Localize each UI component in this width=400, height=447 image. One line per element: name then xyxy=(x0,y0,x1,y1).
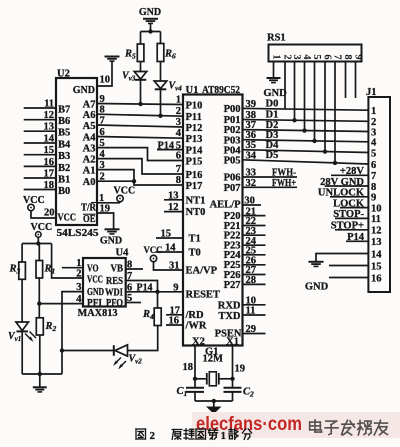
svg-text:P14: P14 xyxy=(347,232,365,243)
wire RS1 pin 2 to D0 net xyxy=(284,62,286,110)
svg-text:3: 3 xyxy=(100,160,105,171)
svg-text:B4: B4 xyxy=(58,140,71,151)
svg-text:6: 6 xyxy=(371,160,376,171)
svg-text:P14: P14 xyxy=(137,282,154,293)
svg-text:7: 7 xyxy=(371,171,376,182)
wire U2 pin 12 (B6) stub xyxy=(24,110,56,121)
svg-text:GND: GND xyxy=(263,88,287,99)
svg-text:LOCK: LOCK xyxy=(333,198,365,209)
svg-text:34: 34 xyxy=(246,150,257,161)
svg-text:2: 2 xyxy=(150,430,156,442)
svg-text:4: 4 xyxy=(371,138,377,149)
svg-text:6: 6 xyxy=(322,54,333,59)
svg-text:2: 2 xyxy=(76,269,81,280)
svg-text:1: 1 xyxy=(221,430,227,442)
wire U1 pin 38 (D1) to J1 pin 2 xyxy=(243,110,369,122)
svg-text:P15: P15 xyxy=(186,157,203,168)
RS1 pin numbers 1-9 xyxy=(271,54,364,60)
svg-text:VCC: VCC xyxy=(31,222,53,233)
svg-text:1: 1 xyxy=(176,94,181,105)
net label P14 to J1 pin 13 xyxy=(346,232,368,243)
svg-text:5: 5 xyxy=(371,148,376,159)
svg-text:VCC: VCC xyxy=(144,245,163,256)
wire R1 to R2 node xyxy=(37,278,41,318)
svg-text:8: 8 xyxy=(127,260,132,271)
wire U1 pin 21 (P20) stub xyxy=(243,206,266,217)
wire R6 to Vy4 xyxy=(160,62,162,82)
svg-text:VCC: VCC xyxy=(87,274,103,285)
J1 pin numbers 1-16 xyxy=(371,106,382,284)
ground symbol below crystal xyxy=(206,401,222,414)
wire crystal ground bar xyxy=(195,399,233,403)
svg-text:U1: U1 xyxy=(186,85,199,96)
svg-text:5: 5 xyxy=(311,54,322,59)
svg-text:GND: GND xyxy=(87,287,104,298)
ground symbol below U2 pin 19 xyxy=(100,229,122,246)
wire U1 pin 27 (P26) stub xyxy=(243,265,266,276)
wire U4 pin 8 (VB) stub xyxy=(126,260,143,271)
svg-text:14: 14 xyxy=(44,134,55,145)
svg-text:+28V: +28V xyxy=(340,166,364,177)
svg-text:NT1: NT1 xyxy=(186,195,206,206)
svg-text:12: 12 xyxy=(168,202,179,213)
svg-text:STOP+: STOP+ xyxy=(331,221,364,232)
wire A5 to U1 P12 xyxy=(97,116,183,128)
wire RS1 pin 7 to D5 net xyxy=(333,62,337,166)
svg-text:D5: D5 xyxy=(266,150,279,161)
svg-text:16: 16 xyxy=(371,273,382,284)
svg-text:28: 28 xyxy=(246,275,257,286)
svg-text:13: 13 xyxy=(44,122,55,133)
svg-text:10: 10 xyxy=(371,203,382,214)
wire Vy1 to ground bar xyxy=(21,332,23,374)
diode Vy4 xyxy=(154,81,182,93)
svg-text:5: 5 xyxy=(127,293,132,304)
svg-text:19: 19 xyxy=(100,204,111,215)
svg-text:15: 15 xyxy=(44,145,55,156)
resistor network RS1 body xyxy=(267,33,362,62)
svg-text:4: 4 xyxy=(76,294,82,305)
svg-text:VCC: VCC xyxy=(58,213,77,224)
wire U1 pin 25 (P24) stub xyxy=(243,246,266,257)
wire U1 pin 33 (FWH-) xyxy=(243,168,298,179)
wire U1 pin 23 (P22) stub xyxy=(243,226,266,237)
ground symbol at J1 pin 14 xyxy=(305,262,329,293)
svg-text:7: 7 xyxy=(176,164,181,175)
svg-text:B7: B7 xyxy=(58,105,70,116)
crystal G1 12M xyxy=(195,347,233,386)
resistor R6 xyxy=(157,44,176,62)
svg-text:T1: T1 xyxy=(189,234,201,245)
svg-text:9: 9 xyxy=(100,94,105,105)
svg-text:VB: VB xyxy=(111,263,124,274)
wire U1 pin 22 (P21) stub xyxy=(243,216,266,227)
svg-text:8: 8 xyxy=(176,175,181,186)
IC U2 54LS245 body xyxy=(56,69,99,240)
svg-text:6: 6 xyxy=(127,282,132,293)
svg-text:8: 8 xyxy=(100,105,105,116)
wire U1 pin 28 (P27) stub xyxy=(243,275,266,286)
svg-text:2: 2 xyxy=(100,172,105,183)
wire U2 pin 16 (B2) stub xyxy=(24,157,56,168)
svg-text:UNLOCK: UNLOCK xyxy=(318,188,365,199)
VCC terminal at U2 pin 20 xyxy=(23,195,45,211)
wire RESET node to R4 xyxy=(157,292,159,308)
IC U4 MAX813 body xyxy=(78,248,130,320)
wire A4 to U1 P13 xyxy=(97,127,183,139)
IC U1 AT89C52 body xyxy=(183,85,243,346)
svg-text:16: 16 xyxy=(169,316,180,327)
wire U1 pin 36 (D3) to J1 pin 4 xyxy=(243,130,369,142)
wire bottom ground bar xyxy=(22,373,62,375)
VCC terminal at U1 EA/VP xyxy=(144,245,163,262)
svg-text:VCC: VCC xyxy=(114,186,136,197)
svg-text:P14: P14 xyxy=(186,146,204,157)
wire U1 pin 17 (/RD) xyxy=(166,305,184,316)
wire U2 pin 14 (B4) stub xyxy=(24,134,56,145)
svg-text:7: 7 xyxy=(100,116,105,127)
wire U2 pin 13 (B5) stub xyxy=(24,122,56,133)
svg-text:P07: P07 xyxy=(224,183,241,194)
wire RS1 pin 6 to D4 net xyxy=(323,62,327,154)
svg-text:8: 8 xyxy=(342,54,353,59)
svg-text:J1: J1 xyxy=(366,87,377,98)
watermark background band xyxy=(192,412,400,438)
wire U1 pin 26 (P25) stub xyxy=(243,256,266,267)
wire Vy4 to P11 net xyxy=(158,90,162,118)
ground symbol RS1 xyxy=(263,78,287,99)
wire R4 to Vy2 xyxy=(128,326,158,351)
svg-text:B0: B0 xyxy=(58,186,70,197)
wire U1 pin 18 (X2) xyxy=(183,346,198,381)
wire U1 pin 14 (T0) xyxy=(156,243,183,254)
svg-text:OE: OE xyxy=(83,214,96,225)
wire U1 pin 16 (/WR) xyxy=(166,316,184,327)
svg-text:D0: D0 xyxy=(266,99,279,110)
svg-text:A6: A6 xyxy=(83,110,96,121)
resistor R3 xyxy=(9,262,26,279)
ground symbol at U2 pin 10 xyxy=(105,57,120,62)
wire RS1 pin 9 stub xyxy=(355,62,357,99)
wire U4 pin 1 (VO) stub xyxy=(62,258,83,269)
wire RS1 pin 4 to D2 net xyxy=(302,62,306,133)
wire U1 pin 10 (RXD) stub xyxy=(243,295,266,306)
resistor R2 xyxy=(36,318,56,335)
wire U1 pin 39 (D0) to J1 pin 1 xyxy=(243,99,369,111)
wire U1 pin 19 (X1) xyxy=(230,346,245,381)
LED Vy1 xyxy=(8,322,36,343)
wire U2 pin 1 xyxy=(97,193,120,204)
VCC terminal left rail xyxy=(31,222,53,237)
svg-text:U2: U2 xyxy=(57,69,70,80)
ground GND top center xyxy=(139,7,161,32)
ground symbol bottom left xyxy=(33,374,47,392)
svg-text:32: 32 xyxy=(246,178,257,189)
svg-text:STOP-: STOP- xyxy=(333,209,364,220)
svg-text:17: 17 xyxy=(44,169,55,180)
wire U1 pin 29 (PSEN) stub xyxy=(243,324,266,335)
svg-text:19: 19 xyxy=(235,364,246,375)
svg-text:A1: A1 xyxy=(83,165,96,176)
wire A6 to U1 P11 xyxy=(97,105,183,117)
svg-text:7: 7 xyxy=(332,54,343,59)
wire U1 pin 37 (D2) to J1 pin 3 xyxy=(243,120,369,132)
wire R2 to ground bar xyxy=(38,335,42,376)
svg-text:NT0: NT0 xyxy=(186,207,206,218)
svg-text:4: 4 xyxy=(100,149,106,160)
svg-text:12M: 12M xyxy=(203,354,224,365)
VCC terminal at U2 pin 1 xyxy=(114,186,136,202)
svg-text:7: 7 xyxy=(127,271,132,282)
svg-text:elecfans·com: elecfans·com xyxy=(196,414,302,435)
resistor R5 xyxy=(124,44,144,62)
svg-text:A2: A2 xyxy=(83,154,96,165)
svg-text:4: 4 xyxy=(301,54,312,60)
svg-text:RS1: RS1 xyxy=(267,33,286,44)
U1 port labels left column xyxy=(185,101,220,348)
svg-text:B1: B1 xyxy=(58,175,70,186)
wire U1 pin 11 (TXD) stub xyxy=(243,306,266,317)
connector J1 body xyxy=(366,87,390,292)
svg-text:9: 9 xyxy=(371,193,376,204)
svg-text:U4: U4 xyxy=(116,248,130,259)
wire RS1 pin 1 to ground xyxy=(273,62,275,78)
svg-text:3: 3 xyxy=(76,282,81,293)
caption figure 2 title xyxy=(136,429,252,443)
wire U4 pin 6 (WDI) / net P14 / U1 RESET pin 9 xyxy=(126,282,183,294)
wire U1 pin 34 (D5) to J1 pin 6 xyxy=(243,150,369,164)
wire U4 pin 7 (RES) xyxy=(126,271,158,292)
svg-text:P16: P16 xyxy=(186,170,203,181)
svg-text:GND: GND xyxy=(100,236,122,247)
wire J1 pin 14 to ground xyxy=(316,254,368,262)
svg-text:10: 10 xyxy=(100,75,111,86)
svg-text:RXD: RXD xyxy=(218,300,241,311)
svg-text:B6: B6 xyxy=(58,116,70,127)
wire U4 pin 5 (PFO) stub xyxy=(126,293,141,304)
wire R5 to Vy3 xyxy=(140,62,142,72)
svg-text:/WR: /WR xyxy=(185,320,207,331)
svg-text:P17: P17 xyxy=(186,181,203,192)
watermark hanzi dianzifashaoyou xyxy=(310,420,388,435)
svg-text:P05: P05 xyxy=(224,155,241,166)
svg-text:T/R: T/R xyxy=(81,203,97,214)
capacitor C2 xyxy=(224,379,255,401)
net label STOP- to J1 pin 11 xyxy=(333,209,368,220)
svg-text:12: 12 xyxy=(44,110,55,121)
svg-text:B3: B3 xyxy=(58,151,70,162)
svg-text:P11: P11 xyxy=(186,112,202,123)
wire U2 pin 17 (B1) stub xyxy=(24,169,56,180)
wire U4 pin 4 (PFI) to R1-R2 node xyxy=(39,294,83,305)
svg-text:A5: A5 xyxy=(83,121,96,132)
svg-text:11: 11 xyxy=(246,306,256,317)
svg-text:6: 6 xyxy=(100,127,105,138)
svg-text:20: 20 xyxy=(44,208,55,219)
net label 28V GND to J1 pin 8 xyxy=(320,177,368,188)
net label UNLOCK to J1 pin 9 xyxy=(318,188,368,199)
wire U2 pin 10 xyxy=(97,61,112,86)
svg-text:12: 12 xyxy=(371,226,382,237)
net label P14 stub to U1 pin 5 xyxy=(157,140,183,151)
svg-text:2: 2 xyxy=(176,106,181,117)
svg-text:1: 1 xyxy=(271,54,282,59)
svg-text:GND: GND xyxy=(305,282,329,293)
svg-text:6: 6 xyxy=(176,150,181,161)
wire RS1 pin 3 to D1 net xyxy=(292,62,296,123)
svg-text:3: 3 xyxy=(291,54,302,59)
wire U2 pin 18 (B0) stub xyxy=(24,180,56,191)
svg-text:P13: P13 xyxy=(186,134,203,145)
wire U1 pin 35 (D4) to J1 pin 5 xyxy=(243,140,369,153)
svg-text:B5: B5 xyxy=(58,128,70,139)
wire U2 pin 11 (B7) stub xyxy=(24,99,56,110)
svg-text:A7: A7 xyxy=(83,99,96,110)
wire GND rail to Vy2 xyxy=(60,348,114,352)
svg-text:16: 16 xyxy=(44,157,55,168)
diode Vy3 xyxy=(122,71,147,83)
svg-text:T0: T0 xyxy=(189,248,201,259)
svg-text:AEL/P: AEL/P xyxy=(210,199,242,210)
wire U1 pin 30 (AEL/P) stub xyxy=(243,196,262,207)
svg-text:1: 1 xyxy=(371,106,376,117)
net label LOCK to J1 pin 10 xyxy=(333,198,368,209)
wire U1 pin 13 (NT1) xyxy=(164,190,183,201)
svg-text:54LS245: 54LS245 xyxy=(57,227,99,239)
wire U2 pin 15 (B3) stub xyxy=(24,145,56,156)
capacitor C1 xyxy=(177,379,205,401)
svg-text:11: 11 xyxy=(371,214,381,225)
svg-text:29: 29 xyxy=(246,324,257,335)
svg-text:VO: VO xyxy=(87,263,99,274)
svg-text:B2: B2 xyxy=(58,163,70,174)
svg-text:VCC: VCC xyxy=(23,195,45,206)
wire A7 to U1 P10 xyxy=(97,94,183,105)
U1 port labels right column xyxy=(210,104,242,347)
wire J1 pin 15 stub xyxy=(329,265,368,267)
svg-text:P00: P00 xyxy=(224,104,241,115)
wire U1 pin 24 (P23) stub xyxy=(243,236,266,247)
wire A0 junction xyxy=(97,172,136,184)
svg-text:TXD: TXD xyxy=(218,311,241,322)
svg-text:P14: P14 xyxy=(158,140,175,151)
wire Vy3 to P10 net xyxy=(138,80,142,106)
svg-text:13: 13 xyxy=(371,237,382,248)
U2 port labels B7-B0 xyxy=(58,105,71,198)
svg-text:X2: X2 xyxy=(192,336,205,347)
svg-text:18: 18 xyxy=(44,180,55,191)
wire U1 pin 15 (T1) xyxy=(156,229,183,240)
wire U1 pin 31 (EA/VP) xyxy=(154,261,184,272)
svg-text:EA/VP: EA/VP xyxy=(186,265,218,276)
svg-text:8: 8 xyxy=(371,182,376,193)
svg-text:9: 9 xyxy=(353,54,364,59)
wire A2 to U1 P16 xyxy=(97,149,183,175)
svg-text:13: 13 xyxy=(168,190,179,201)
svg-text:18: 18 xyxy=(183,362,194,373)
svg-text:9: 9 xyxy=(173,282,178,293)
svg-text:P27: P27 xyxy=(224,280,241,291)
svg-text:15: 15 xyxy=(161,229,172,240)
wire U4 pin 3 (GND) down xyxy=(62,282,83,374)
resistor R1 xyxy=(36,261,55,279)
svg-text:A4: A4 xyxy=(83,132,97,143)
svg-text:2: 2 xyxy=(282,54,293,59)
wire A1 to U1 P17 xyxy=(97,160,183,186)
U2 port labels A7-A0 xyxy=(83,99,97,188)
net label STOP+ to J1 pin 12 xyxy=(331,221,369,232)
wire RS1 pin 8 stub xyxy=(345,62,347,99)
wire U1 pin 12 (NT0) xyxy=(164,202,183,213)
wire J1 pin 16 stub xyxy=(329,277,368,279)
wire R3 to Vy1 xyxy=(21,279,23,322)
wire U2 pin 19 (OE) xyxy=(97,204,114,229)
svg-text:1: 1 xyxy=(99,193,104,204)
svg-text:5: 5 xyxy=(100,138,105,149)
svg-text:/RD: /RD xyxy=(185,310,205,321)
wire top rail to R5 R6 xyxy=(141,29,161,44)
svg-text:14: 14 xyxy=(165,243,176,254)
svg-text:14: 14 xyxy=(371,249,382,260)
svg-text:4: 4 xyxy=(176,128,182,139)
wire U2 pin 20 xyxy=(31,208,56,219)
svg-text:31: 31 xyxy=(169,261,180,272)
svg-text:RESET: RESET xyxy=(186,290,220,301)
svg-text:11: 11 xyxy=(44,99,54,110)
svg-text:A0: A0 xyxy=(83,177,96,188)
svg-text:FWH+: FWH+ xyxy=(272,178,296,189)
svg-text:30: 30 xyxy=(244,196,255,207)
net label +28V to J1 pin 7 xyxy=(331,166,368,177)
wire U1 pin 32 (FWH+) xyxy=(243,178,298,189)
svg-text:GND: GND xyxy=(73,85,95,96)
wire U4 pin 2 (VCC) from rail xyxy=(52,244,83,280)
svg-text:15: 15 xyxy=(371,261,382,272)
wire VCC rail split xyxy=(22,237,51,262)
svg-text:28V GND: 28V GND xyxy=(320,177,364,188)
wire RS1 pin 5 to D3 net xyxy=(312,62,316,144)
svg-text:GND: GND xyxy=(139,7,161,18)
svg-text:P12: P12 xyxy=(186,123,203,134)
svg-text:AT89C52: AT89C52 xyxy=(202,85,240,96)
LED Vy2 xyxy=(113,345,142,370)
svg-text:3: 3 xyxy=(176,117,181,128)
wire A3 to U1 P15 xyxy=(97,138,183,161)
svg-text:39: 39 xyxy=(246,99,257,110)
svg-text:RES: RES xyxy=(106,276,123,287)
svg-text:A3: A3 xyxy=(83,143,96,154)
svg-text:5: 5 xyxy=(176,140,181,151)
resistor R4 xyxy=(142,308,161,326)
svg-text:MAX813: MAX813 xyxy=(78,308,118,319)
svg-text:P10: P10 xyxy=(186,101,203,112)
